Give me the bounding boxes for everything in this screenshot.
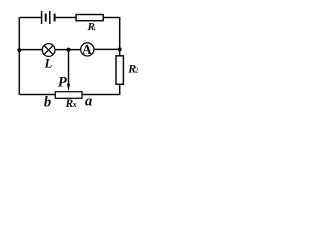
wire R1 to top-right corner and down <box>103 18 120 50</box>
wire right node to R2 <box>119 49 121 55</box>
wire bottom-left <box>19 94 55 96</box>
rheostat Rx <box>55 92 82 99</box>
resistor R1 <box>76 15 103 21</box>
wire lamp to node <box>55 49 81 51</box>
svg-text:2: 2 <box>135 67 139 75</box>
svg-text:x: x <box>72 100 77 109</box>
node on right wire <box>118 47 122 51</box>
wire left node to lamp <box>19 49 42 51</box>
svg-text:b: b <box>44 94 51 110</box>
svg-text:A: A <box>82 42 92 57</box>
node on left wire <box>17 48 21 52</box>
svg-text:1: 1 <box>93 26 96 32</box>
wiper wire from node down <box>68 50 70 85</box>
node between lamp and ammeter <box>67 48 71 52</box>
wire R2 to bottom corner <box>82 84 120 94</box>
svg-text:L: L <box>44 57 53 71</box>
svg-text:P: P <box>58 74 67 90</box>
battery B1 <box>42 11 55 24</box>
svg-text:a: a <box>85 94 92 110</box>
wire battery to R1 <box>56 17 77 19</box>
wiper arrowhead <box>67 84 70 92</box>
wire top-left segment <box>19 17 41 19</box>
wire left vertical <box>18 18 20 95</box>
lamp L <box>42 44 55 57</box>
ammeter U1 <box>81 42 94 57</box>
wire ammeter to right wire <box>94 48 120 50</box>
resistor R2 <box>116 56 123 85</box>
